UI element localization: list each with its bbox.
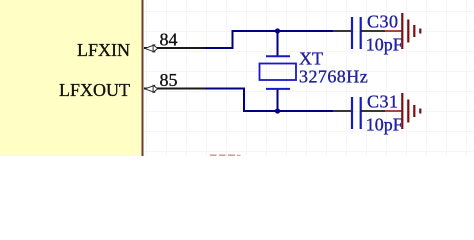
- pin 84 line: [144, 47, 206, 49]
- C31 right pin to ground: [361, 110, 385, 112]
- junction node top: [275, 28, 280, 33]
- background grid: [0, 0, 474, 156]
- svg-text:10pF: 10pF: [366, 115, 403, 135]
- wire: crystal bottom lead: [277, 89, 279, 111]
- svg-text:C31: C31: [367, 92, 399, 112]
- pin 84 I/O arrow: [145, 45, 158, 52]
- capacitor C31 plates: [352, 97, 361, 129]
- svg-text:84: 84: [160, 30, 178, 50]
- wire: bottom run junction to C31: [278, 110, 334, 112]
- wire: C31 cap left pin (black): [333, 110, 351, 112]
- wire: C30 cap left pin (black): [333, 30, 351, 32]
- wire: crystal top lead: [277, 31, 279, 56]
- pin 85 line: [144, 88, 206, 90]
- capacitor C30 plates: [352, 17, 361, 49]
- svg-text:10pF: 10pF: [366, 35, 403, 55]
- ground GND top: [385, 13, 420, 49]
- pin 85 I/O arrow: [145, 85, 158, 92]
- wire LFXOUT net: pin85 to corner, down, right to junction: [205, 89, 278, 112]
- C30 right pin to ground: [361, 30, 385, 32]
- svg-text:LFXIN: LFXIN: [77, 40, 130, 60]
- svg-text:85: 85: [160, 70, 178, 90]
- svg-text:LFXOUT: LFXOUT: [59, 80, 130, 100]
- sheet-symbol U? (IC body, clipped at left): [0, 0, 143, 164]
- ground GND bottom: [385, 93, 420, 129]
- junction node bottom: [275, 108, 280, 113]
- svg-text:C30: C30: [367, 12, 399, 32]
- wire LFXIN net: pin84 to corner, up, right to C30: [205, 31, 333, 48]
- crystal XT symbol: [260, 56, 297, 89]
- svg-text:32768Hz: 32768Hz: [299, 67, 368, 87]
- clipped red text fragment at bottom edge: [210, 154, 241, 156]
